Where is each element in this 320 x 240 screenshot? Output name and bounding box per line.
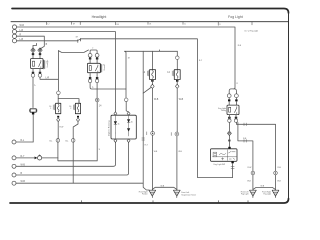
wire H1 chain middle xyxy=(57,122,59,139)
wire net W4 long loop to fog switch xyxy=(17,39,233,178)
ground G4 xyxy=(272,190,279,197)
bulb H3 pin square xyxy=(151,80,153,82)
bottom left terminal B2 xyxy=(12,164,16,168)
bulb H2 pin diamond xyxy=(76,118,79,122)
svg-text:1H: 1H xyxy=(73,23,76,25)
wire B4 xyxy=(16,182,143,184)
connector terminal A2 xyxy=(12,30,16,34)
bulb H3 headlight box xyxy=(150,70,156,80)
svg-text:Fog Light: Fog Light xyxy=(241,193,249,196)
DRL pin diamond top left xyxy=(114,112,117,115)
wire B3 joins relay chain xyxy=(16,142,129,175)
terminal circle below R1 right xyxy=(38,74,42,78)
relay R1 headlight relay box xyxy=(31,59,43,69)
svg-text:W-B: W-B xyxy=(247,181,251,183)
headlight feed corner circle xyxy=(176,56,180,60)
bulb H4 bracket xyxy=(172,71,173,76)
fog wire right lower xyxy=(238,123,253,172)
wire net main feed bus A xyxy=(58,50,88,52)
relay R1 pin squares top xyxy=(32,53,41,55)
connector circle H3 xyxy=(151,131,155,135)
fog relay bottom stems xyxy=(229,115,236,119)
bulb H3 bottom diamond xyxy=(151,84,155,88)
fuse F3 pin square xyxy=(228,140,230,142)
wire branch to bulb H2 xyxy=(58,99,79,104)
connector marks right lower xyxy=(244,140,246,143)
wire net W1 to fog relay xyxy=(17,27,236,89)
relay R2 dimmer relay box xyxy=(87,63,100,72)
svg-text:Headlight: Headlight xyxy=(92,15,107,19)
DRL pin diamond bottom left xyxy=(114,139,117,142)
bulb H2 filament xyxy=(77,104,79,112)
connector circle H4 xyxy=(175,132,179,136)
relay R1 coil xyxy=(32,61,34,66)
ground G2 xyxy=(173,190,180,197)
DRL diode arrow left xyxy=(114,121,117,124)
bottom left terminal B3 xyxy=(12,173,16,177)
svg-text:L: L xyxy=(35,85,37,87)
svg-text:2: 2 xyxy=(92,48,93,50)
bulb H1 pin square xyxy=(57,116,59,118)
wire net W3 to fuse F2 xyxy=(17,36,45,49)
bottom left terminal B4 xyxy=(12,181,16,185)
wire H2 chain down xyxy=(72,143,74,184)
ground bridge headlights xyxy=(152,187,177,190)
fog switch top pin square xyxy=(228,147,230,149)
relay R2 coil xyxy=(89,66,91,71)
title separator line xyxy=(11,21,288,23)
relay R2 pin squares bottom xyxy=(89,77,98,79)
wire net W2 to DRL relay xyxy=(17,32,116,112)
bulb H1 headlight LH box xyxy=(56,103,61,113)
connector component on x33 xyxy=(29,109,37,115)
connector terminal A1 (top left) xyxy=(12,25,16,29)
DRL pin diamond bottom right xyxy=(127,139,130,142)
ground G1 xyxy=(149,190,156,197)
svg-text:Headlight: Headlight xyxy=(46,59,49,67)
svg-text:W-B: W-B xyxy=(154,151,158,153)
svg-text:Fog Light SW: Fog Light SW xyxy=(214,163,226,166)
svg-text:W-B: W-B xyxy=(277,181,281,183)
svg-text:2I: 2I xyxy=(236,83,238,85)
svg-text:L-R: L-R xyxy=(46,78,50,80)
svg-text:R-Y: R-Y xyxy=(145,145,149,147)
relay R2 contact xyxy=(95,65,98,72)
DRL pin diamond top right xyxy=(127,112,130,115)
fuse F1 feed bracket xyxy=(33,43,37,48)
wire net R1 left output down xyxy=(32,77,34,107)
relay R2 pin squares top xyxy=(89,58,98,60)
bulb H1 feed stem xyxy=(57,95,59,104)
bulb H3 stem xyxy=(151,51,153,69)
fog stub stems xyxy=(229,98,236,100)
wire H3 down xyxy=(151,80,153,132)
bulb H4 bottom diamond xyxy=(175,84,179,88)
svg-text:R-B: R-B xyxy=(278,167,282,169)
svg-text:Dimmer: Dimmer xyxy=(104,64,106,71)
svg-text:W-B: W-B xyxy=(178,151,182,153)
fog relay stems xyxy=(229,101,236,105)
frame right border xyxy=(288,13,290,199)
fog terminal circles xyxy=(228,119,231,122)
connector marks right top xyxy=(244,123,246,126)
fog wires to grounds xyxy=(253,175,276,190)
column tick marks under title line xyxy=(46,22,252,26)
svg-text:B: B xyxy=(46,44,48,46)
diagonal to ground drop xyxy=(143,88,151,94)
wire corner into H4 xyxy=(176,51,178,69)
DRL relay box xyxy=(111,115,136,139)
svg-text:1M: 1M xyxy=(116,24,119,26)
svg-text:R-W: R-W xyxy=(60,127,64,129)
wire B1 xyxy=(16,157,58,159)
svg-text:1: 1 xyxy=(50,108,51,110)
svg-text:W-B: W-B xyxy=(154,99,159,101)
relay R1 pin squares bottom xyxy=(32,72,41,74)
connector terminal A4 xyxy=(12,39,16,43)
fog relay pin squares bottom xyxy=(228,117,237,119)
fog relay contact xyxy=(235,107,237,114)
bottom border ticks xyxy=(82,201,249,203)
fog connector circle left xyxy=(251,171,255,175)
fog feed bracket xyxy=(229,89,236,94)
connector marker on W4 xyxy=(78,38,81,42)
bulb H4 filament xyxy=(176,71,178,79)
svg-text:2k: 2k xyxy=(131,122,133,124)
terminal circle on R2 right chain xyxy=(95,98,99,102)
svg-text:1K: 1K xyxy=(149,23,152,25)
svg-text:Fog Light: Fog Light xyxy=(264,193,272,196)
bulb H4 headlight box xyxy=(174,70,180,80)
frame bottom border xyxy=(10,199,289,204)
fog ground bridge xyxy=(253,187,276,189)
wire DRL feed vertical xyxy=(125,51,126,98)
fog switch internals xyxy=(213,150,237,161)
bulb H1 bracket xyxy=(53,105,54,110)
svg-text:Suspension Tower: Suspension Tower xyxy=(181,195,196,197)
connector terminal A3 xyxy=(12,34,16,38)
svg-text:1k: 1k xyxy=(118,124,120,126)
bulb H1 filament xyxy=(57,104,59,112)
svg-text:14: 14 xyxy=(99,106,102,108)
wire continues to link row xyxy=(96,102,98,161)
fuse F3 xyxy=(228,122,230,131)
fog switch box xyxy=(211,149,238,162)
bulb H1 headlight LH low feed circle xyxy=(57,91,61,95)
svg-text:Relay: Relay xyxy=(221,110,226,112)
relay R2 bracket terminals xyxy=(88,53,92,57)
switch bottom wire xyxy=(232,163,234,177)
feed drop to bulb H1 xyxy=(57,51,59,91)
bulb H2 pin square xyxy=(77,116,79,118)
svg-text:R-W: R-W xyxy=(248,167,252,169)
wire B2 to DRL left bottom xyxy=(16,142,116,166)
fog switch bottom pin square xyxy=(231,161,233,163)
inline connector ticks on x143 xyxy=(142,138,145,140)
bulb H4 pin square xyxy=(176,80,178,82)
wire net R2 left joins DRL feed xyxy=(90,83,126,89)
noise filter component xyxy=(35,155,42,160)
DRL diode arrow right 2 xyxy=(127,128,130,131)
bulb H2 ground wire xyxy=(73,122,78,139)
svg-text:12: 12 xyxy=(167,72,170,74)
tick reference labels xyxy=(47,23,221,26)
svg-text:1L: 1L xyxy=(184,23,186,25)
frame top border xyxy=(12,9,289,14)
svg-text:1J: 1J xyxy=(47,24,49,26)
relay R1 contact xyxy=(39,60,41,67)
svg-text:B-L: B-L xyxy=(66,141,69,143)
relay R1 bottom stems xyxy=(33,69,40,74)
relay R2 side bracket xyxy=(101,64,102,73)
svg-text:1E: 1E xyxy=(128,58,131,60)
ground G3 xyxy=(250,190,257,197)
terminal circle below R1 left xyxy=(31,74,35,78)
wire from connector down xyxy=(32,115,34,143)
fog bracket terminal circles xyxy=(227,94,231,98)
relay R2 top stems xyxy=(90,57,97,63)
terminal circle mid left xyxy=(12,140,16,144)
wire net R2 right down to B3 xyxy=(96,83,98,99)
terminal circles below R2 xyxy=(88,79,91,82)
fuse F2 xyxy=(38,48,42,53)
fog connector circle right xyxy=(274,171,278,175)
connector circle H2 chain xyxy=(71,139,75,143)
switch bottom connector ticks xyxy=(231,166,234,168)
bottom left terminal B1 xyxy=(12,156,16,160)
wire net main feed bus B xyxy=(125,50,178,51)
svg-text:2: 2 xyxy=(70,108,71,110)
wire mid left horizontal xyxy=(16,141,33,143)
bulb H3 bracket xyxy=(148,71,149,76)
svg-text:1H: 1H xyxy=(76,37,79,39)
svg-text:R-B: R-B xyxy=(238,45,242,47)
svg-text:B-L: B-L xyxy=(50,141,53,143)
fog relay box xyxy=(227,105,239,115)
svg-text:Daytime Running: Daytime Running xyxy=(107,121,110,136)
fog relay coil xyxy=(229,107,231,112)
bulb H2 headlight RH box xyxy=(75,103,80,113)
wire H4 to ground xyxy=(176,136,178,190)
fuse F1 xyxy=(31,48,35,53)
bulb H2 bracket xyxy=(73,105,74,110)
svg-text:W-B: W-B xyxy=(179,99,184,101)
connector circle on DRL feed xyxy=(124,98,128,102)
svg-text:R-Y: R-Y xyxy=(199,60,203,62)
relay R1 pin stems xyxy=(33,53,40,59)
wire net R1 right output xyxy=(40,77,58,79)
svg-text:1I: 1I xyxy=(219,24,221,26)
connector circle H1 chain 2 xyxy=(56,139,60,143)
feed drop wire x143 xyxy=(143,51,149,190)
svg-text:<1> w/ Fog Light: <1> w/ Fog Light xyxy=(244,29,259,32)
wire H1 chain to terminal row xyxy=(57,143,59,158)
svg-text:L: L xyxy=(99,149,101,151)
svg-text:Fog Light: Fog Light xyxy=(228,15,243,19)
bulb H1 pin diamond xyxy=(57,118,60,122)
wire into DRL right pin xyxy=(126,102,128,112)
relay R2 feed bracket xyxy=(90,50,97,53)
wire H4 down xyxy=(176,80,178,133)
link bulb1 to dimmer chain xyxy=(58,158,97,161)
DRL diode arrow right 1 xyxy=(127,119,130,122)
fog stub pin squares xyxy=(228,99,238,101)
fog wire right top xyxy=(236,122,275,171)
bulb H3 filament xyxy=(152,71,154,79)
DRL internal stems top xyxy=(115,115,128,121)
svg-text:Fender: Fender xyxy=(142,194,148,196)
relay R2 bottom stems xyxy=(90,73,97,79)
wire H3 to ground xyxy=(152,135,154,190)
wire fuse to switch xyxy=(228,136,230,147)
relay R1 side bracket xyxy=(44,60,45,69)
bulb H2 feed stem xyxy=(78,100,80,103)
